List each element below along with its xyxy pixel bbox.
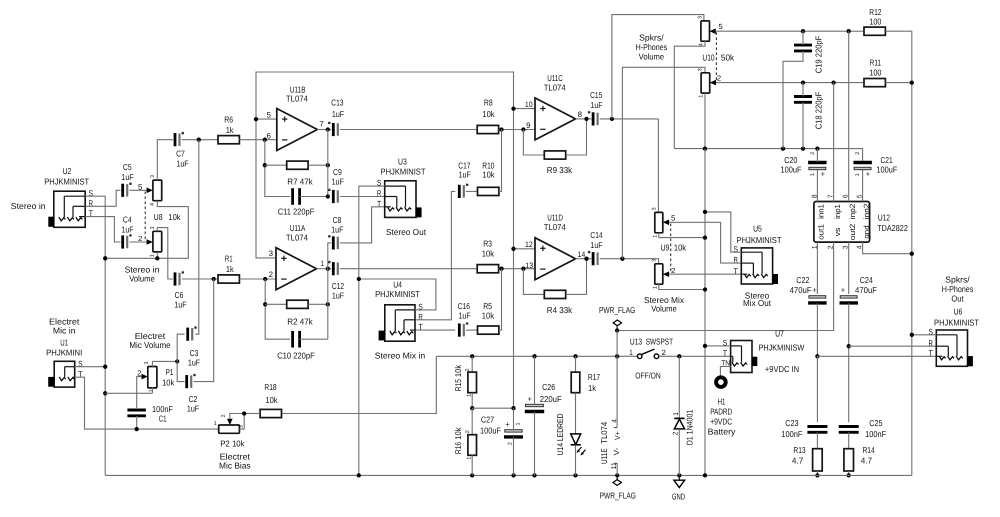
wire C15 to volume pots <box>600 118 659 120</box>
wire R2 right <box>308 303 328 305</box>
wire R6 to U11B pin6 <box>239 139 276 141</box>
resistor R8 10k <box>477 125 498 133</box>
node U11A output <box>326 267 330 271</box>
svg-text:Volume: Volume <box>129 274 155 284</box>
svg-text:C6: C6 <box>175 290 184 300</box>
resistor R11 100 <box>864 79 885 87</box>
capacitor C12 1uF <box>332 262 335 275</box>
svg-text:C14: C14 <box>590 230 602 240</box>
svg-text:1: 1 <box>699 95 705 98</box>
wire U11A output <box>317 268 332 270</box>
svg-text:2: 2 <box>662 348 666 357</box>
svg-text:H-Phones: H-Phones <box>636 42 668 52</box>
wire U12 pin1 to C22 <box>816 242 818 294</box>
power flag PWR_FLAG (upper) <box>613 320 621 326</box>
wire P1 bottom pin stub <box>151 387 153 393</box>
svg-text:R7 47k: R7 47k <box>287 177 313 187</box>
node D1 top tap <box>677 354 681 358</box>
svg-text:4.7: 4.7 <box>861 456 873 466</box>
wire C25 to R14 <box>848 432 850 448</box>
resistor R17 1k <box>571 372 580 393</box>
svg-text:R6: R6 <box>224 115 233 125</box>
svg-text:Mic in: Mic in <box>53 326 76 336</box>
svg-text:PADRD: PADRD <box>710 406 732 416</box>
svg-text:R: R <box>418 312 422 321</box>
wire U11D pin12 <box>514 248 536 250</box>
wire U4 S to ground vertical <box>359 279 436 310</box>
svg-text:C19 220pF: C19 220pF <box>813 36 823 74</box>
node PWR_FLAG junction <box>615 328 619 332</box>
capacitor C14 1uF <box>592 252 595 265</box>
svg-text:R: R <box>929 339 933 348</box>
svg-text:100: 100 <box>869 17 881 27</box>
op-amp U11B TL074 <box>277 109 318 151</box>
wire R8 to U11C pin9 <box>499 129 535 131</box>
svg-text:4: 4 <box>612 419 619 423</box>
capacitor C9 1uF <box>332 190 335 203</box>
svg-text:R3: R3 <box>483 239 492 249</box>
wire C8 tap from output <box>328 243 331 269</box>
svg-text:U2: U2 <box>63 166 72 176</box>
node R8/R10 tap <box>499 127 503 131</box>
capacitor C11 220pF <box>291 188 294 205</box>
node R14 ground <box>847 473 851 477</box>
wire U11C output <box>576 118 592 120</box>
svg-text:R12: R12 <box>869 7 881 17</box>
svg-text:vs: vs <box>833 227 842 236</box>
potentiometer U8B 10k bottom section <box>153 231 162 252</box>
capacitor C20 100uF <box>808 161 827 164</box>
node C1 ground row tap <box>135 427 139 431</box>
node R2 right <box>326 302 330 306</box>
wire R17 top stub <box>575 356 577 372</box>
svg-text:2: 2 <box>221 414 227 417</box>
svg-text:4: 4 <box>150 203 156 206</box>
svg-text:1k: 1k <box>226 125 234 135</box>
svg-text:T: T <box>377 199 381 208</box>
svg-text:10k: 10k <box>482 311 495 321</box>
svg-text:1uF: 1uF <box>121 172 133 182</box>
svg-text:12: 12 <box>525 240 533 249</box>
svg-text:C1: C1 <box>159 414 167 424</box>
svg-text:R9 33k: R9 33k <box>547 165 573 175</box>
svg-text:100uF: 100uF <box>781 165 802 175</box>
wire U1 T down to C1 row <box>75 377 219 429</box>
node ground bus stereo-out tap <box>357 473 361 477</box>
svg-text:220uF: 220uF <box>540 394 562 404</box>
wire U8 wiper gang link (dashed) <box>144 192 146 241</box>
svg-text:100uF: 100uF <box>480 426 501 436</box>
op-amp U11C TL074 <box>535 98 576 140</box>
wire junction up to C3 <box>177 334 184 361</box>
svg-text:100: 100 <box>869 67 881 77</box>
node rail/U10 junction <box>703 146 707 150</box>
svg-text:2: 2 <box>465 430 471 433</box>
svg-text:R18: R18 <box>264 382 276 392</box>
wire U4 T pin to C16 <box>415 329 455 331</box>
wire C10 right <box>300 338 328 340</box>
wire R13 to ground bus <box>816 471 818 475</box>
svg-text:U11E: U11E <box>599 448 609 464</box>
svg-text:C10 220pF: C10 220pF <box>277 351 315 361</box>
svg-text:10k: 10k <box>453 364 463 377</box>
node R2 left <box>263 302 267 306</box>
node U11B pin6 feedback tap <box>263 138 267 142</box>
svg-text:PWR_FLAG: PWR_FLAG <box>600 490 637 500</box>
resistor R10 10k <box>478 187 499 195</box>
svg-text:C25: C25 <box>869 418 882 428</box>
svg-text:C15: C15 <box>590 90 602 100</box>
node R17 top tap <box>573 354 577 358</box>
resistor R1 1k <box>218 275 239 283</box>
node P2 wiper junction <box>242 411 246 415</box>
wire C1 bottom stub <box>136 416 138 429</box>
svg-text:R17: R17 <box>588 372 600 382</box>
capacitor C17 1uF <box>458 185 461 198</box>
svg-text:R: R <box>377 189 381 198</box>
svg-text:1: 1 <box>652 235 658 238</box>
wire U12 pin2 vs to power <box>617 242 834 330</box>
wire Vref row to C27 <box>472 407 513 409</box>
potentiometer P1 10k Electret Mic Volume <box>148 367 157 388</box>
wire U11B feedback right <box>327 130 329 197</box>
capacitor C1 100nF <box>127 409 145 412</box>
svg-text:T: T <box>418 323 422 332</box>
potentiometer U8A 10k top section <box>153 180 162 201</box>
potentiometer U9B 10k bottom section <box>655 264 663 284</box>
svg-text:R16: R16 <box>453 442 463 454</box>
node R8/R9 tap <box>521 127 525 131</box>
capacitor C21 100uF <box>853 161 872 164</box>
svg-text:R14: R14 <box>863 445 875 455</box>
resistor R3 10k <box>477 265 498 273</box>
wire C8 to U3 T pin <box>340 207 385 243</box>
resistor R12 100 <box>864 27 885 35</box>
wire U2 S to ground vertical <box>85 196 105 475</box>
svg-text:P1: P1 <box>166 367 174 377</box>
svg-text:1uF: 1uF <box>187 403 199 413</box>
svg-text:2: 2 <box>465 369 471 372</box>
wire R1 to U11A pin2 <box>239 278 276 280</box>
svg-text:C13: C13 <box>331 98 343 108</box>
wire junction down to C3 <box>195 140 198 335</box>
svg-text:C20: C20 <box>784 155 797 165</box>
wire C26 top stub <box>534 356 536 405</box>
svg-text:P2 10k: P2 10k <box>220 439 245 449</box>
jack U7 PHJKMINISW +9VDC IN <box>731 341 752 373</box>
wire U11A feedback left <box>265 279 290 339</box>
svg-text:3: 3 <box>150 227 156 230</box>
svg-text:U5: U5 <box>753 224 762 234</box>
svg-text:U9: U9 <box>661 243 670 253</box>
resistor R9 33k <box>544 151 565 159</box>
svg-text:1: 1 <box>214 421 217 427</box>
svg-text:1uF: 1uF <box>459 311 471 321</box>
svg-text:2: 2 <box>810 152 816 155</box>
wire R4 right up to output <box>566 259 587 295</box>
svg-text:1k: 1k <box>226 264 234 274</box>
svg-text:1uF: 1uF <box>331 225 343 235</box>
svg-text:10k: 10k <box>482 248 495 258</box>
capacitor C3 1uF <box>186 328 189 341</box>
wire C23 to R13 <box>816 432 818 448</box>
svg-text:+: + <box>821 170 826 179</box>
wire R17 to LED <box>575 393 577 435</box>
power flag PWR_FLAG (lower) <box>616 475 618 479</box>
node R7 left <box>263 163 267 167</box>
svg-text:1uF: 1uF <box>459 170 471 180</box>
svg-text:inp1: inp1 <box>833 204 842 219</box>
wire power column to V+ pin <box>616 331 618 428</box>
svg-text:R2 47k: R2 47k <box>287 317 313 327</box>
svg-text:+: + <box>812 286 817 295</box>
svg-text:1uF: 1uF <box>188 357 200 367</box>
svg-text:U11C: U11C <box>547 73 563 83</box>
capacitor C13 1uF <box>332 123 335 136</box>
wire C19 bottom jog to rail <box>783 51 803 149</box>
svg-text:10k: 10k <box>482 170 495 180</box>
svg-text:5: 5 <box>718 22 722 31</box>
svg-text:Battery: Battery <box>708 426 737 436</box>
svg-text:C7: C7 <box>176 149 185 159</box>
wire U9B wiper to U5 T <box>669 273 741 275</box>
svg-text:Volume: Volume <box>639 52 665 62</box>
svg-text:OFF/ON: OFF/ON <box>635 371 660 381</box>
svg-text:PHJKMINIST: PHJKMINIST <box>44 176 90 186</box>
svg-text:R13: R13 <box>793 445 805 455</box>
svg-text:+9VDC: +9VDC <box>710 416 732 426</box>
svg-text:R8: R8 <box>484 98 493 108</box>
svg-text:+: + <box>841 286 846 295</box>
svg-text:V+: V+ <box>613 431 622 440</box>
node U7 S ground tap <box>703 344 707 348</box>
svg-text:1: 1 <box>810 173 816 176</box>
jack U1 PHJKMINI Electret Mic in <box>54 361 74 387</box>
svg-text:+9VDC IN: +9VDC IN <box>765 364 799 374</box>
amplifier U12 TDA2822 <box>814 202 870 243</box>
svg-text:inp2: inp2 <box>848 204 857 220</box>
wire U11B pin5 <box>256 118 277 120</box>
svg-text:C9: C9 <box>333 167 342 177</box>
wire C5 to U8A wiper <box>129 189 146 191</box>
svg-text:T: T <box>734 267 738 276</box>
node U1 S tap <box>103 365 107 369</box>
wire U10B bottom pin <box>704 93 706 149</box>
wire U12 pin7 stub <box>833 83 835 202</box>
wire C27 bottom to ground bus <box>513 437 515 475</box>
node ground bus D1 tap <box>677 473 681 477</box>
svg-text:10: 10 <box>525 100 533 109</box>
resistor R18 10k <box>260 409 281 417</box>
node P1 ground row tap <box>103 391 107 395</box>
svg-text:C24: C24 <box>860 275 873 285</box>
wire Vref distribution to op-amp + inputs <box>256 72 514 408</box>
svg-text:100uF: 100uF <box>876 165 897 175</box>
svg-text:inn2: inn2 <box>862 204 871 220</box>
potentiometer P2 10k Electret Mic Bias <box>219 425 240 433</box>
wire C22 node down to C23 <box>816 356 818 422</box>
node U11A pin2 tap <box>263 277 267 281</box>
wire P1 wiper to C1 <box>137 377 142 408</box>
wire R11 right to ground column <box>885 82 911 84</box>
capacitor C25 100nF <box>839 425 859 428</box>
wire C20 top stub <box>816 149 818 162</box>
wire U4 R pin to C17 <box>415 191 455 319</box>
svg-text:3: 3 <box>698 16 704 19</box>
svg-text:PHJKMINIST: PHJKMINIST <box>375 289 421 299</box>
wire U12 pin5 stub to C21 <box>862 170 864 202</box>
wire U10 gang link (dashed) <box>715 32 717 81</box>
wire U1 S to ground vertical <box>75 366 106 368</box>
svg-text:1: 1 <box>466 394 472 397</box>
resistor R5 10k <box>478 326 499 334</box>
svg-text:out2: out2 <box>848 224 857 241</box>
wire main ground bus <box>105 474 912 476</box>
wire C4 to U8B wiper <box>129 241 146 243</box>
capacitor C26 220uF <box>526 404 544 406</box>
svg-text:out1: out1 <box>817 224 826 240</box>
wire C22 bottom to T row <box>816 303 818 356</box>
wire P2 wiper up to R18 node <box>230 414 244 419</box>
wire down to U9A top <box>657 119 659 212</box>
wire U2 R to C5 <box>85 190 120 206</box>
resistor R7 47k <box>287 161 308 169</box>
svg-text:1: 1 <box>150 254 156 257</box>
capacitor C8 1uF <box>332 236 335 249</box>
svg-text:C21: C21 <box>881 155 893 165</box>
wire U3 S to ground vertical <box>359 186 385 475</box>
node R15 top tap <box>470 354 474 358</box>
svg-text:C16: C16 <box>458 301 470 311</box>
svg-text:100nF: 100nF <box>152 404 173 414</box>
svg-text:1: 1 <box>515 423 521 426</box>
wire junction down to C2 <box>193 279 213 382</box>
svg-text:U14 LEDRED: U14 LEDRED <box>555 414 565 456</box>
wire C12 to R3 <box>340 268 477 270</box>
wire U11D feedback left <box>523 269 544 295</box>
svg-text:Stereo Mix in: Stereo Mix in <box>375 351 426 361</box>
svg-text:Volume: Volume <box>651 304 677 314</box>
node U11C output <box>584 117 588 121</box>
node U11D pin12 tap <box>511 247 515 251</box>
wire U10B wiper to R11 <box>716 82 864 84</box>
svg-text:PHJKMINIST: PHJKMINIST <box>381 167 427 177</box>
svg-text:Stereo Out: Stereo Out <box>386 227 427 237</box>
svg-text:2: 2 <box>508 442 514 445</box>
node C19 top tap <box>801 29 805 33</box>
svg-text:H1: H1 <box>718 396 726 406</box>
wire C27 top stub <box>513 408 515 430</box>
svg-text:10k: 10k <box>674 243 687 253</box>
svg-text:U12: U12 <box>878 212 890 222</box>
svg-text:1uF: 1uF <box>332 291 344 301</box>
wire U8B bottom pin <box>156 252 158 258</box>
resistor R13 4.7 <box>813 449 823 471</box>
node U11B output <box>326 127 330 131</box>
node C26 top tap <box>532 354 536 358</box>
LED U14 LEDRED <box>571 434 581 445</box>
wire R16 top stub <box>471 408 473 434</box>
wire U9A wiper to U5 R <box>669 222 741 263</box>
svg-text:C5: C5 <box>123 162 132 172</box>
wire switch to U7 T <box>659 355 731 357</box>
wire up to U10A top <box>612 15 704 119</box>
node U4 S ground tap <box>357 277 361 281</box>
wire R7 left stub <box>265 164 286 166</box>
wire C19 top stub <box>802 31 804 45</box>
svg-text:R: R <box>734 256 738 265</box>
wire R7 right <box>308 164 328 166</box>
wire U12 pin6 stub <box>848 31 850 201</box>
node R11 right ground tap <box>910 80 914 84</box>
capacitor C23 100nF <box>807 425 827 428</box>
capacitor C2 1uF <box>185 375 188 388</box>
svg-text:4.7: 4.7 <box>792 456 804 466</box>
potentiometer U10A 50k top section <box>701 21 710 41</box>
svg-text:9: 9 <box>526 121 530 130</box>
wire TDA top rail <box>674 149 862 161</box>
node U9A bottom ground tap <box>703 235 707 239</box>
svg-text:U7: U7 <box>775 329 784 339</box>
node ground bus C27 tap <box>511 473 515 477</box>
wire ground vertical x705 <box>704 149 706 476</box>
svg-text:1uF: 1uF <box>121 224 133 234</box>
svg-text:U3: U3 <box>398 157 407 167</box>
resistor R4 33k <box>544 290 565 298</box>
capacitor C15 1uF <box>592 112 595 125</box>
diode D1 1N4001 <box>678 356 680 418</box>
wire C18 bottom stub <box>802 102 804 148</box>
svg-text:6: 6 <box>267 131 271 140</box>
jack U5 PHJKMINIST Stereo Mix Out <box>741 248 772 284</box>
wire U7 TN to H1 <box>720 367 730 376</box>
svg-text:1k: 1k <box>588 383 596 393</box>
svg-text:inn1: inn1 <box>817 204 826 219</box>
node R3/R5 tap <box>499 267 503 271</box>
svg-text:+: + <box>505 420 510 429</box>
svg-text:1: 1 <box>466 457 472 460</box>
switch U13 SWSPST <box>637 354 642 359</box>
wire P1 bottom row <box>105 392 152 394</box>
wire R16 bottom to ground bus <box>471 455 473 475</box>
svg-text:PHJKMINI: PHJKMINI <box>46 348 82 358</box>
op-amp U11D TL074 <box>535 238 576 280</box>
svg-text:TL074: TL074 <box>286 232 308 242</box>
svg-text:C18 220pF: C18 220pF <box>813 92 823 130</box>
wire C18 top stub <box>802 83 804 97</box>
wire U10A bottom to TDA rail <box>674 41 705 148</box>
wire R row to U6 <box>849 345 937 347</box>
svg-text:Mix Out: Mix Out <box>743 298 771 308</box>
svg-text:1uF: 1uF <box>590 240 602 250</box>
wire R5 up to R3 node <box>499 269 502 330</box>
wire U12 pin8 stub to C20 <box>816 170 818 202</box>
svg-text:U1: U1 <box>60 337 68 347</box>
svg-text:3: 3 <box>144 362 150 365</box>
svg-text:PHJKMINIST: PHJKMINIST <box>934 317 980 327</box>
svg-text:+: + <box>866 170 871 179</box>
node U6 S ground tap <box>910 333 914 337</box>
jack U2 PHJKMINIST Stereo in <box>54 191 85 227</box>
node U12 pin4 ground tap <box>910 252 914 256</box>
svg-text:10k: 10k <box>265 395 278 405</box>
wire R10 up to R8 node <box>499 130 502 192</box>
svg-text:C23: C23 <box>785 418 798 428</box>
svg-text:100nF: 100nF <box>865 429 886 439</box>
wire U12 pin4 gnd <box>863 242 912 254</box>
svg-text:C22: C22 <box>796 275 809 285</box>
wire R12 right to ground column <box>885 31 911 475</box>
